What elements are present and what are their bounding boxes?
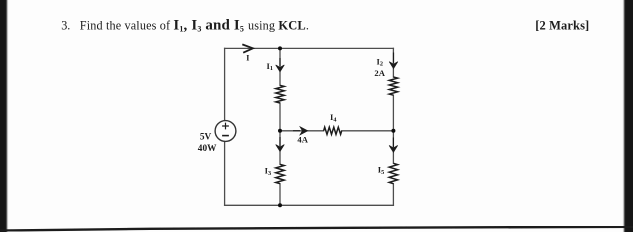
wire: middle branch between node B and R3	[279, 131, 281, 165]
wire: left branch upper (top-left corner down to source top)	[224, 48, 226, 120]
resistor R3 (I3 branch)	[276, 164, 284, 183]
current arrow I5	[392, 138, 394, 148]
svg-text:3.: 3.	[61, 18, 70, 32]
wire: bottom rail from bottom-left corner to bottom-right corner	[225, 204, 394, 206]
wire: left branch lower (source bottom to bottom-left corner)	[224, 142, 226, 206]
wire: middle branch between R1 and node B	[279, 103, 281, 131]
wire: right branch upper (top-right corner to resistor R2)	[392, 48, 394, 77]
wire: middle rung right segment (R4 to node C)	[342, 130, 394, 132]
svg-text:4A: 4A	[297, 135, 308, 145]
node C (right branch at rung)	[391, 129, 395, 133]
current arrow I3	[279, 137, 281, 146]
scan border: right black bar	[624, 0, 633, 234]
wire: right branch between R2 and node C	[392, 95, 394, 131]
wire: middle branch between R3 and node D	[279, 184, 281, 206]
scan border: bottom tilted rule	[0, 227, 633, 231]
svg-text:2A: 2A	[374, 68, 385, 78]
scan border: left black bar	[0, 0, 7, 234]
node B (middle branch at rung)	[278, 129, 282, 133]
current arrow I2	[393, 53, 395, 64]
svg-text:40W: 40W	[198, 144, 217, 154]
node A (top of middle branch)	[278, 46, 282, 50]
resistor R5 (I5 branch)	[389, 163, 397, 183]
wire: right branch between node C and R5	[392, 131, 394, 164]
svg-text:[2 Marks]: [2 Marks]	[535, 19, 589, 33]
resistor R2 (I2 branch)	[389, 77, 397, 95]
wire: middle rung left segment (node B to R4)	[280, 130, 324, 132]
current arrow I on top rail	[242, 44, 253, 52]
svg-text:Find the values of I1, I3 and: Find the values of I1, I3 and I5 using K…	[80, 17, 309, 33]
resistor R4 (middle rung)	[324, 127, 342, 134]
resistor R1 (I1 branch)	[276, 85, 284, 103]
wire: right branch between R5 and bottom-right corner	[392, 184, 394, 206]
svg-text:5V: 5V	[200, 133, 212, 143]
current arrow I1	[279, 58, 281, 66]
voltage source V1 (5V 40W)	[215, 121, 236, 142]
node D (bottom of middle branch)	[278, 203, 282, 207]
wire: top rail from top-left corner to top-right corner	[225, 47, 394, 49]
current arrow I4 on middle rung	[293, 130, 300, 132]
wire: middle branch upper (node A to resistor R1)	[279, 48, 281, 85]
